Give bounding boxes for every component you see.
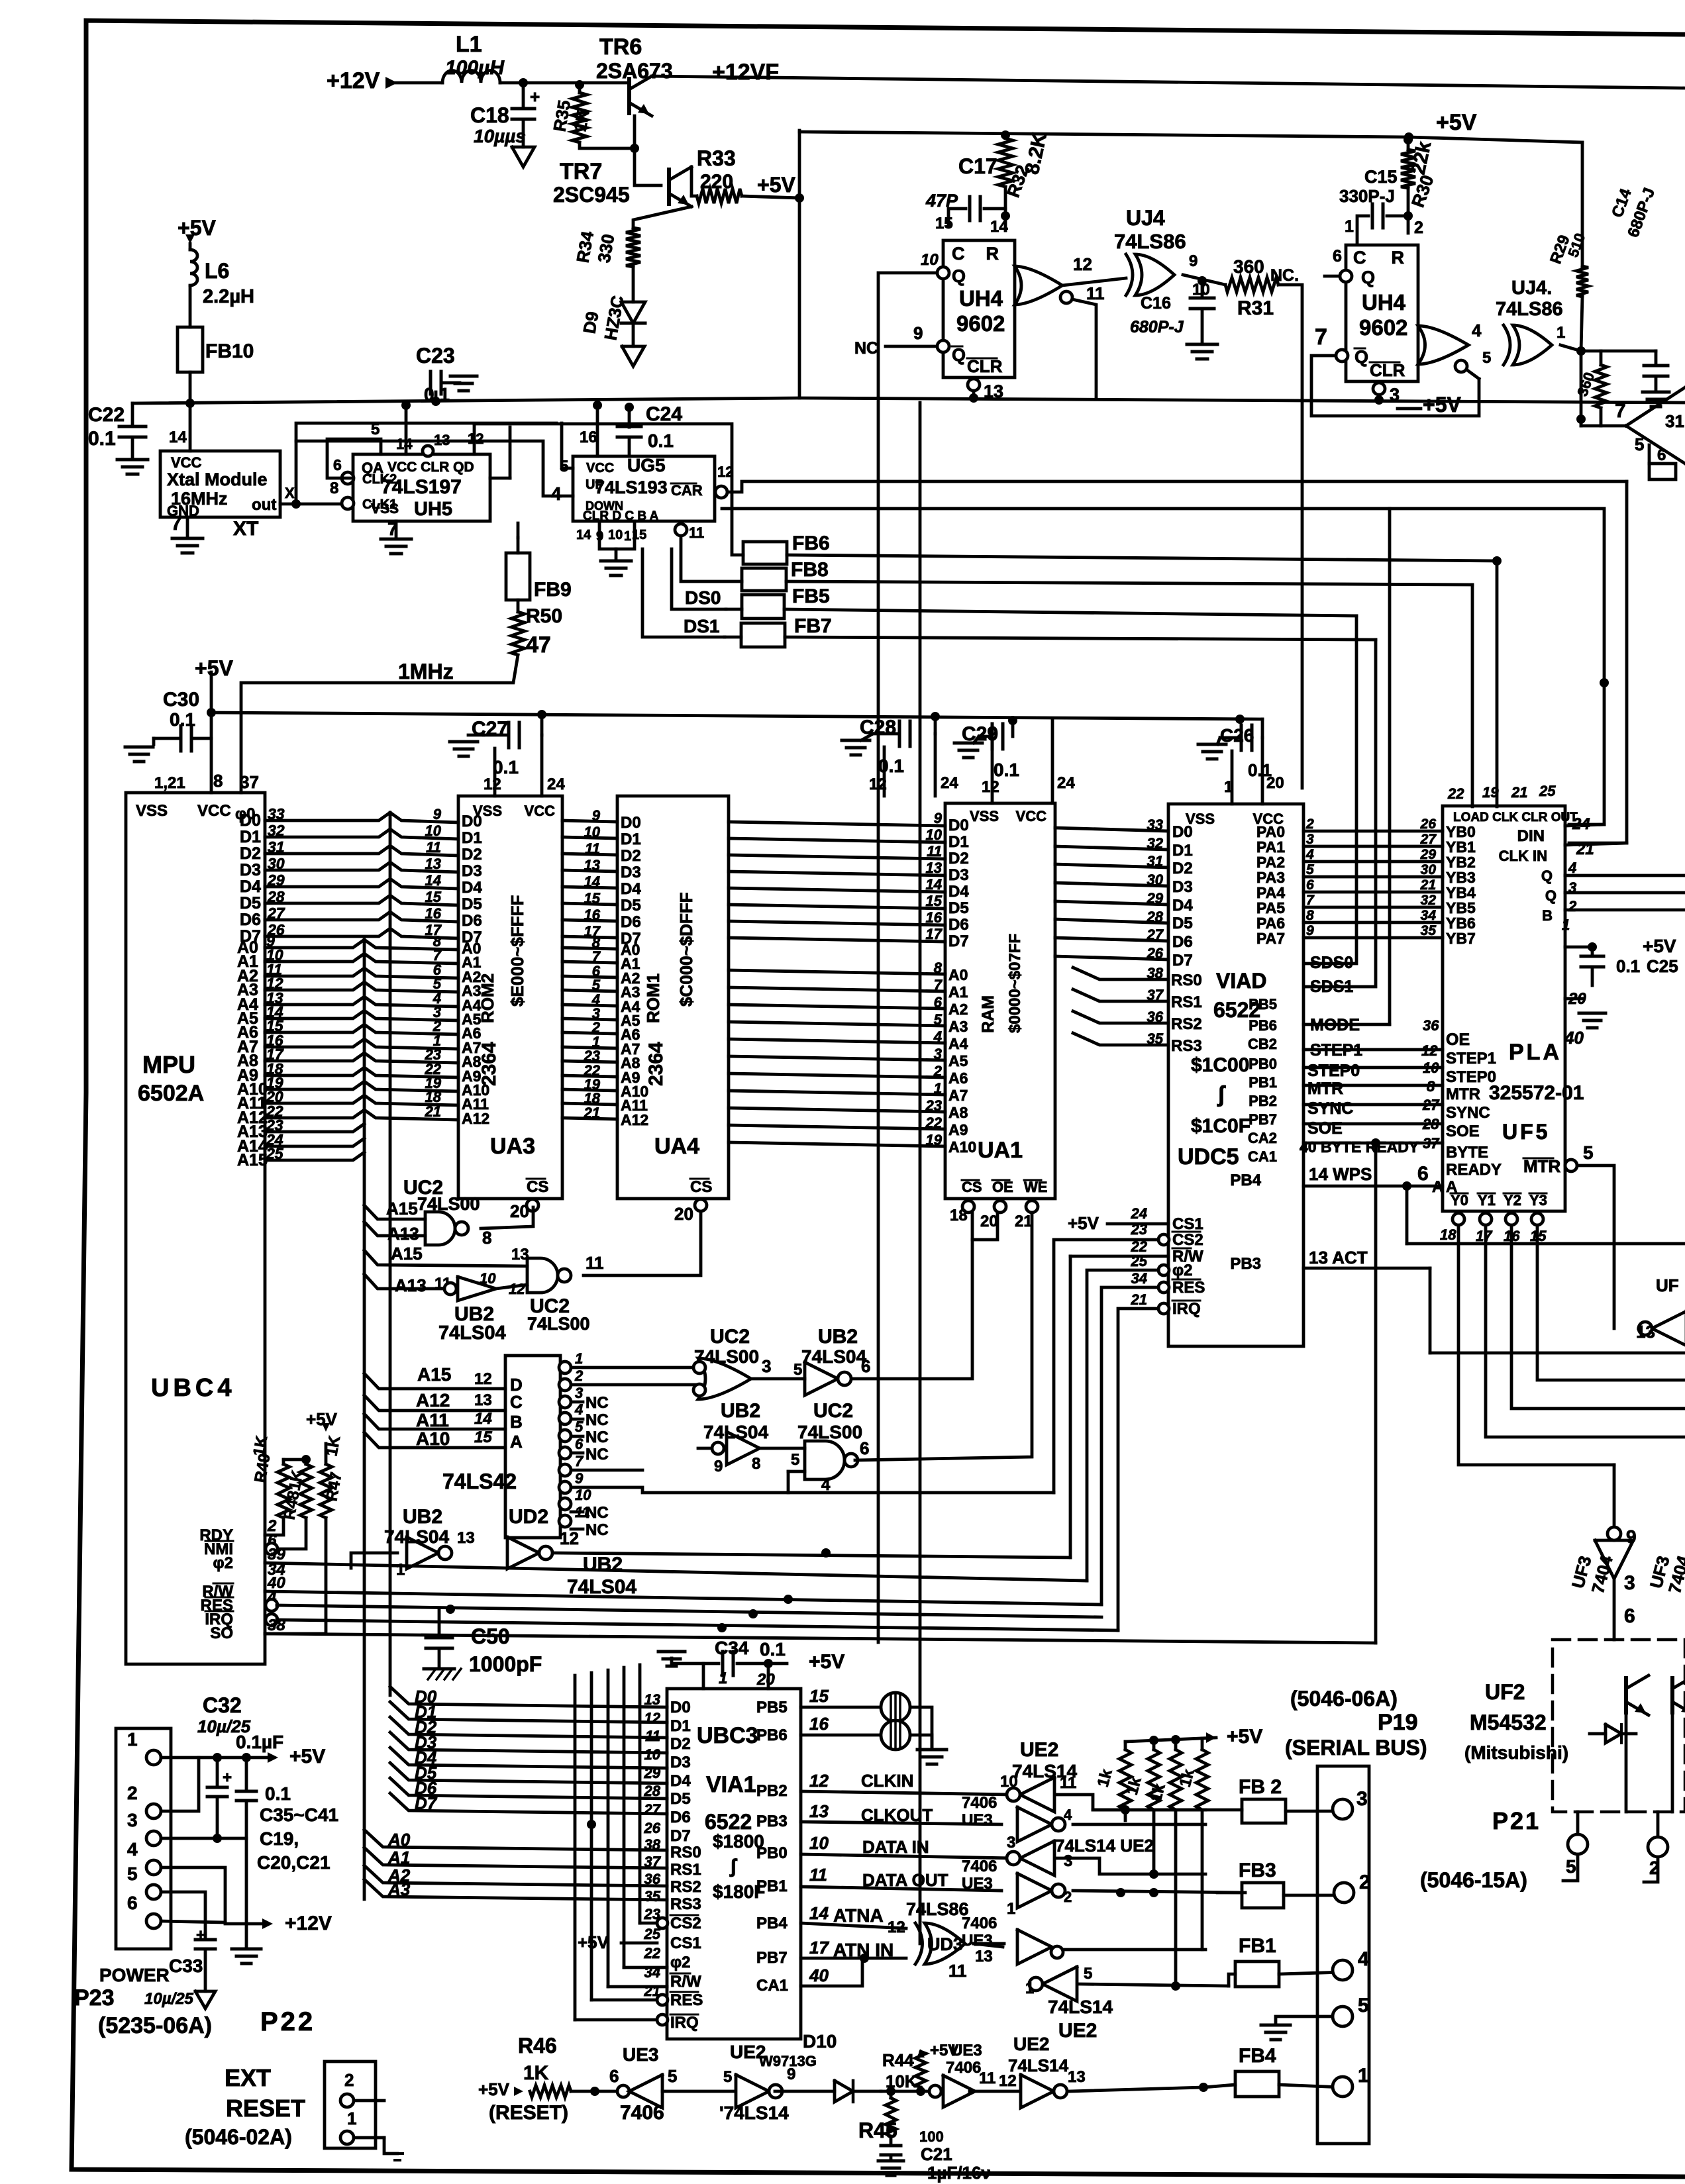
svg-text:14 WPS: 14 WPS <box>1309 1164 1372 1184</box>
svg-text:8: 8 <box>1427 1078 1435 1095</box>
svg-text:1: 1 <box>1025 1979 1034 1997</box>
wire pin6 <box>161 1921 225 1922</box>
transistor pair in UF2 <box>1624 1678 1628 1712</box>
svg-text:15: 15 <box>935 215 953 232</box>
svg-text:Xtal Module: Xtal Module <box>167 470 268 489</box>
wire <box>1407 1242 1685 1246</box>
svg-text:2: 2 <box>127 1783 138 1803</box>
pin 5 loop <box>327 439 381 478</box>
capacitor 0.1 <box>245 1758 248 1791</box>
svg-text:STEP0: STEP0 <box>1446 1068 1496 1086</box>
wire D3 <box>390 1732 667 1753</box>
svg-text:A7: A7 <box>948 1087 968 1104</box>
svg-text:16: 16 <box>809 1714 829 1734</box>
svg-text:1: 1 <box>347 2109 356 2128</box>
svg-text:ʃ: ʃ <box>1217 1082 1226 1107</box>
svg-text:14: 14 <box>809 1903 829 1923</box>
wire <box>729 905 945 909</box>
svg-text:2: 2 <box>1414 219 1423 237</box>
svg-text:+12V: +12V <box>285 1912 332 1934</box>
wire <box>265 1518 283 1535</box>
svg-text:10: 10 <box>575 1487 591 1503</box>
ground <box>1579 1012 1606 1015</box>
svg-text:20: 20 <box>1266 774 1284 792</box>
wire <box>729 1108 945 1112</box>
svg-text:A9: A9 <box>948 1121 968 1138</box>
svg-text:(SERIAL BUS): (SERIAL BUS) <box>1285 1736 1427 1760</box>
svg-text:6: 6 <box>1333 247 1342 266</box>
ferrite bead FB7 <box>741 623 785 647</box>
svg-text:24: 24 <box>941 774 958 792</box>
svg-text:(5046-06A): (5046-06A) <box>1290 1687 1398 1711</box>
svg-text:R46: R46 <box>518 2034 557 2058</box>
svg-text:1: 1 <box>1562 917 1570 933</box>
svg-text:UE2: UE2 <box>1058 2020 1097 2042</box>
svg-text:12: 12 <box>474 1370 492 1388</box>
svg-text:R33: R33 <box>697 146 736 170</box>
svg-text:RS3: RS3 <box>670 1895 701 1913</box>
inverter UE2 74LS14 (data in) <box>1020 1841 1054 1875</box>
svg-text:CLK2: CLK2 <box>362 472 397 487</box>
svg-text:9602: 9602 <box>956 311 1005 336</box>
wire 16MHz <box>490 477 510 480</box>
svg-text:B: B <box>1542 907 1553 924</box>
wire <box>729 987 945 991</box>
wire <box>751 1377 805 1381</box>
svg-text:40: 40 <box>1564 1028 1584 1048</box>
svg-text:φ2: φ2 <box>670 1954 691 1971</box>
svg-text:IRQ: IRQ <box>670 2014 699 2032</box>
svg-text:7406: 7406 <box>620 2102 664 2124</box>
svg-text:A15: A15 <box>237 1151 268 1169</box>
ground <box>842 739 870 742</box>
svg-text:+5V: +5V <box>1643 936 1676 956</box>
svg-text:24: 24 <box>1131 1205 1147 1222</box>
wire <box>265 1095 458 1105</box>
svg-text:0.1µF: 0.1µF <box>236 1732 283 1752</box>
svg-text:NC.: NC. <box>1270 266 1299 285</box>
svg-text:DS1: DS1 <box>684 616 719 636</box>
ground <box>615 549 618 560</box>
svg-text:UA3: UA3 <box>490 1134 535 1159</box>
svg-text:5: 5 <box>934 1011 943 1028</box>
IC UH4 9602 (first) <box>943 240 1015 377</box>
svg-text:4: 4 <box>574 1401 583 1418</box>
svg-text:8: 8 <box>213 771 223 791</box>
wire to UA3 CS <box>481 1207 533 1228</box>
svg-text:FB10: FB10 <box>205 340 254 362</box>
wire <box>562 976 617 977</box>
pin 13 <box>968 379 980 391</box>
svg-text:A6: A6 <box>948 1069 968 1087</box>
svg-text:6: 6 <box>860 1438 869 1458</box>
svg-text:1000pF: 1000pF <box>469 1652 542 1676</box>
svg-text:220: 220 <box>700 171 733 193</box>
svg-text:UC2: UC2 <box>813 1400 853 1422</box>
svg-text:D1: D1 <box>948 833 969 851</box>
svg-text:C22: C22 <box>88 404 125 426</box>
svg-text:NC: NC <box>586 1394 609 1412</box>
svg-text:CS2: CS2 <box>670 1914 701 1932</box>
wire <box>1284 1894 1344 1897</box>
svg-text:1K: 1K <box>285 1468 307 1492</box>
wire <box>729 855 945 859</box>
svg-text:D2: D2 <box>462 846 482 864</box>
wire <box>562 1118 617 1119</box>
svg-text:4: 4 <box>1358 1948 1369 1970</box>
svg-text:VCC: VCC <box>197 802 231 820</box>
wire <box>1073 1011 1168 1023</box>
svg-text:A11: A11 <box>416 1410 449 1430</box>
svg-text:UF2: UF2 <box>1485 1680 1525 1704</box>
svg-text:RES: RES <box>670 1991 703 2009</box>
svg-text:RES: RES <box>1172 1279 1205 1297</box>
IC UA4 ROM 2364 <box>617 796 729 1199</box>
svg-text:6: 6 <box>1624 1605 1635 1627</box>
wire <box>970 2090 1019 2093</box>
wire <box>265 846 458 856</box>
svg-text:RS1: RS1 <box>670 1861 701 1879</box>
svg-text:+5V: +5V <box>478 2079 510 2099</box>
svg-text:CS: CS <box>962 1179 982 1195</box>
wire <box>189 372 192 403</box>
svg-text:1: 1 <box>396 1561 405 1579</box>
IC UH5 74LS197 <box>353 454 490 521</box>
svg-text:29: 29 <box>1420 847 1437 862</box>
svg-text:UB2: UB2 <box>721 1400 760 1422</box>
svg-text:32: 32 <box>1421 893 1437 908</box>
svg-text:D5: D5 <box>621 897 641 915</box>
pin 3 <box>1373 383 1385 395</box>
svg-text:9: 9 <box>592 807 601 824</box>
wire <box>1055 846 1168 850</box>
wire <box>265 1067 458 1077</box>
resistor R49 1K <box>282 1460 285 1464</box>
svg-text:FB3: FB3 <box>1239 1860 1276 1881</box>
svg-text:PA7: PA7 <box>1256 930 1285 947</box>
svg-text:0.1: 0.1 <box>493 757 519 777</box>
svg-text:12: 12 <box>1073 254 1092 274</box>
svg-text:$1C00: $1C00 <box>1191 1054 1249 1076</box>
svg-text:20: 20 <box>980 1213 998 1230</box>
svg-text:B: B <box>510 1412 523 1432</box>
svg-text:Y3: Y3 <box>1529 1192 1547 1209</box>
svg-text:19: 19 <box>926 1132 943 1148</box>
resistor R30 22k <box>1407 137 1410 150</box>
svg-text:15: 15 <box>809 1686 829 1706</box>
svg-text:D2: D2 <box>1172 860 1193 877</box>
svg-text:100: 100 <box>919 2128 944 2145</box>
svg-text:φ2: φ2 <box>1172 1262 1193 1279</box>
resistor R32 8.2K <box>1004 133 1007 138</box>
svg-text:CA1: CA1 <box>1248 1148 1277 1165</box>
svg-text:20: 20 <box>510 1201 529 1221</box>
svg-text:UE3: UE3 <box>962 1875 993 1893</box>
svg-text:FB4: FB4 <box>1239 2045 1276 2067</box>
test point <box>881 1693 910 1722</box>
wire D2 <box>390 1717 667 1738</box>
svg-text:37: 37 <box>644 1854 662 1870</box>
svg-text:21: 21 <box>1511 784 1527 801</box>
svg-text:C: C <box>510 1392 523 1412</box>
svg-text:BYTE: BYTE <box>1446 1144 1488 1162</box>
wire <box>1311 356 1479 416</box>
svg-text:34: 34 <box>1131 1270 1147 1287</box>
svg-text:10: 10 <box>584 824 601 840</box>
svg-text:D3: D3 <box>948 866 969 884</box>
wire <box>1644 1857 1658 1882</box>
wire D5 <box>390 1763 667 1783</box>
wire <box>632 323 635 346</box>
svg-text:SOE: SOE <box>1307 1119 1343 1138</box>
svg-text:74LS86: 74LS86 <box>1114 230 1186 253</box>
wire <box>1057 1858 1205 1874</box>
svg-text:D4: D4 <box>1172 897 1193 915</box>
wire <box>1073 989 1168 1001</box>
wire <box>919 403 922 1944</box>
wire rail <box>132 398 799 403</box>
svg-text:OE: OE <box>1446 1030 1470 1049</box>
svg-text:13: 13 <box>457 1529 475 1547</box>
svg-text:RS2: RS2 <box>670 1878 701 1896</box>
wire <box>562 1032 617 1034</box>
svg-text:FB8: FB8 <box>791 559 829 581</box>
svg-text:9: 9 <box>1306 923 1314 938</box>
svg-text:FB1: FB1 <box>1239 1935 1276 1957</box>
svg-text:+12V: +12V <box>327 68 380 93</box>
wire +5V rail over ICs <box>211 713 1262 719</box>
inductor L1 <box>442 70 500 83</box>
svg-text:D6: D6 <box>670 1809 691 1826</box>
svg-text:Y1: Y1 <box>1478 1192 1496 1209</box>
diode D9 HZ3C zener <box>632 267 635 302</box>
wire D7 <box>390 1793 667 1814</box>
svg-text:3: 3 <box>127 1810 138 1830</box>
svg-text:12: 12 <box>560 1528 579 1548</box>
svg-text:IRQ: IRQ <box>1172 1300 1201 1318</box>
svg-text:1: 1 <box>127 1729 138 1750</box>
svg-text:UE3: UE3 <box>951 2042 982 2060</box>
svg-text:10µµs: 10µµs <box>474 126 526 146</box>
wire <box>1004 187 1007 230</box>
IC UF2 M54532 dashed box <box>1553 1640 1685 1812</box>
svg-text:MTR: MTR <box>1307 1079 1343 1098</box>
wire <box>910 1707 932 1748</box>
svg-text:25: 25 <box>1539 783 1556 799</box>
wire <box>1286 1810 1343 1813</box>
svg-text:4: 4 <box>1305 847 1314 862</box>
svg-text:CA1: CA1 <box>756 1977 788 1995</box>
wire <box>562 820 617 822</box>
svg-text:7406: 7406 <box>962 1858 997 1875</box>
wire <box>1303 860 1443 864</box>
wire <box>265 968 458 978</box>
svg-text:35: 35 <box>1421 923 1437 938</box>
inverter UB2 74LS04 (phi2 b) <box>507 1537 539 1569</box>
wire <box>1671 1715 1674 1812</box>
wire <box>729 938 945 942</box>
wire <box>1303 906 1443 909</box>
ground <box>117 458 148 462</box>
svg-text:330P-J: 330P-J <box>1339 186 1395 206</box>
svg-text:12: 12 <box>888 1918 905 1936</box>
ground <box>917 1748 946 1752</box>
ground <box>954 742 982 745</box>
svg-text:16: 16 <box>926 909 943 926</box>
pin clk2 <box>342 472 354 484</box>
svg-text:UB2: UB2 <box>403 1506 442 1528</box>
svg-text:5: 5 <box>1566 1856 1576 1877</box>
wire <box>265 912 458 922</box>
svg-text:P19: P19 <box>1378 1710 1418 1735</box>
wire pin1 +5V <box>161 1756 270 1760</box>
svg-text:C17: C17 <box>958 154 997 178</box>
svg-text:20: 20 <box>756 1671 775 1689</box>
svg-text:0.1: 0.1 <box>760 1639 786 1660</box>
svg-text:Q: Q <box>1354 347 1368 367</box>
svg-text:D2: D2 <box>670 1735 691 1753</box>
svg-text:18: 18 <box>1440 1226 1456 1243</box>
svg-text:1: 1 <box>1358 2065 1369 2087</box>
wire <box>562 1089 617 1091</box>
svg-text:NC: NC <box>586 1521 609 1539</box>
pin 9 NC <box>937 340 949 352</box>
svg-text:OE: OE <box>992 1179 1013 1195</box>
wire <box>562 1103 617 1105</box>
svg-text:READY: READY <box>1446 1161 1502 1179</box>
svg-text:4: 4 <box>933 1028 942 1045</box>
wire <box>500 81 629 85</box>
svg-text:A4: A4 <box>948 1035 968 1052</box>
wire <box>555 1553 1070 1558</box>
wire <box>1055 864 1168 868</box>
wire <box>1581 297 1582 351</box>
svg-text:UF: UF <box>1656 1275 1679 1295</box>
svg-text:FB5: FB5 <box>792 585 830 607</box>
svg-text:23: 23 <box>1131 1221 1147 1238</box>
svg-text:8: 8 <box>1306 908 1314 923</box>
wire A1 <box>364 1848 667 1868</box>
svg-text:2.2µH: 2.2µH <box>203 286 254 307</box>
svg-text:Y0: Y0 <box>1451 1192 1468 1209</box>
svg-text:13: 13 <box>474 1391 492 1409</box>
pin 6 NC <box>1340 270 1352 282</box>
wire Y7 out <box>571 1487 1054 1493</box>
svg-text:D4: D4 <box>948 883 969 901</box>
svg-text:D3: D3 <box>621 864 641 881</box>
wire address bus vertical <box>363 940 366 1899</box>
svg-text:RS0: RS0 <box>670 1844 701 1861</box>
wire <box>387 81 442 85</box>
svg-text:5: 5 <box>1084 1965 1092 1983</box>
svg-text:R: R <box>1392 248 1405 268</box>
xor UD3 ATNA <box>925 1923 965 1964</box>
decoder outputs <box>559 1362 571 1373</box>
wire pin2 <box>161 1758 199 1811</box>
resistor R29 510 <box>1581 142 1584 266</box>
wire <box>562 990 617 991</box>
svg-text:D3: D3 <box>462 862 482 880</box>
svg-text:FB7: FB7 <box>794 615 832 637</box>
svg-text:MPU: MPU <box>142 1051 195 1078</box>
svg-text:5: 5 <box>793 1361 802 1379</box>
svg-text:325572-01: 325572-01 <box>1489 1082 1584 1104</box>
IC UDC5 VIA 6522 <box>1168 804 1303 1346</box>
svg-text:TR6: TR6 <box>599 34 642 60</box>
svg-text:UE3: UE3 <box>962 1811 993 1829</box>
svg-text:2SA673: 2SA673 <box>596 59 673 83</box>
wire <box>787 555 1497 561</box>
svg-text:PB1: PB1 <box>756 1877 788 1895</box>
svg-text:9: 9 <box>913 323 923 343</box>
svg-text:R/W: R/W <box>670 1973 701 1991</box>
svg-text:1K: 1K <box>523 2062 549 2084</box>
wire <box>729 1056 945 1060</box>
svg-text:PB3: PB3 <box>1230 1255 1261 1273</box>
svg-text:PB6: PB6 <box>1249 1017 1277 1034</box>
svg-text:1: 1 <box>1557 324 1565 342</box>
wire <box>1303 845 1443 848</box>
svg-text:CA2: CA2 <box>1248 1130 1277 1146</box>
wire <box>562 1061 617 1062</box>
svg-text:680P-J: 680P-J <box>1130 318 1184 336</box>
svg-text:RS3: RS3 <box>1171 1037 1202 1055</box>
svg-text:14: 14 <box>474 1410 492 1428</box>
resistor R28 360 <box>1595 365 1607 408</box>
svg-text:M54532: M54532 <box>1470 1711 1547 1734</box>
svg-text:UH4: UH4 <box>959 286 1003 311</box>
wire <box>265 1110 458 1120</box>
svg-text:21: 21 <box>1131 1291 1147 1308</box>
svg-text:34: 34 <box>1421 908 1437 923</box>
svg-text:5: 5 <box>791 1451 799 1469</box>
svg-text:9: 9 <box>575 1470 584 1487</box>
svg-text:SYNC: SYNC <box>1307 1099 1353 1118</box>
svg-text:1µF/16ν: 1µF/16ν <box>927 2163 991 2183</box>
wire <box>729 1142 945 1146</box>
svg-text:UA1: UA1 <box>978 1138 1023 1163</box>
wire <box>881 2090 930 2093</box>
svg-text:PB6: PB6 <box>756 1726 788 1744</box>
svg-text:+5V: +5V <box>1068 1213 1099 1233</box>
svg-text:(5046-15A): (5046-15A) <box>1420 1868 1527 1892</box>
svg-text:1K: 1K <box>323 1434 344 1458</box>
svg-text:22: 22 <box>1447 785 1464 802</box>
svg-text:UE2: UE2 <box>1013 2034 1049 2054</box>
wire <box>562 870 617 871</box>
svg-text:D1: D1 <box>621 830 641 848</box>
pin 7 <box>1336 350 1348 362</box>
svg-text:D10: D10 <box>803 2031 837 2052</box>
svg-text:7: 7 <box>1306 893 1315 908</box>
svg-text:7: 7 <box>1315 324 1327 350</box>
wire Q loop <box>878 273 937 398</box>
svg-text:36: 36 <box>1423 1017 1439 1034</box>
svg-text:UJ4.: UJ4. <box>1511 277 1552 299</box>
svg-text:D7: D7 <box>670 1827 691 1845</box>
svg-text:25: 25 <box>1131 1253 1148 1269</box>
wire <box>265 862 458 872</box>
svg-text:CS: CS <box>527 1178 548 1196</box>
svg-text:STEP0: STEP0 <box>1307 1062 1360 1080</box>
svg-text:74LS14: 74LS14 <box>1048 1997 1113 2017</box>
svg-text:2364: 2364 <box>478 1042 500 1086</box>
ferrite bead FB10 <box>189 286 192 327</box>
wire <box>1125 1738 1216 1742</box>
wire <box>1062 278 1126 285</box>
svg-text:1: 1 <box>624 529 631 544</box>
svg-text:10: 10 <box>926 826 943 843</box>
